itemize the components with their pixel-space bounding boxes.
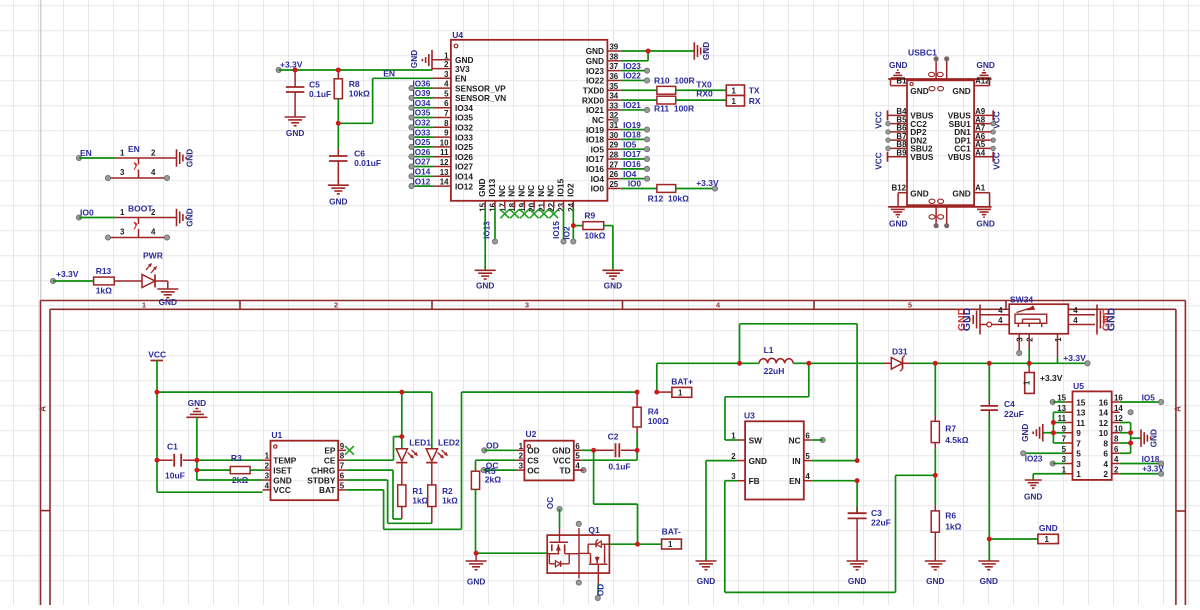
svg-text:R10 100R: R10 100R [654, 75, 695, 85]
svg-text:0.01uF: 0.01uF [354, 158, 381, 168]
wire +3.3V pin2 [1120, 473, 1161, 475]
wire OD [484, 449, 516, 451]
wire PWR to gnd [155, 280, 168, 282]
USBC1 VCC B9 [887, 152, 889, 162]
resistor R9 [583, 222, 604, 230]
svg-text:B9: B9 [896, 149, 907, 158]
svg-text:VCC: VCC [273, 485, 291, 495]
svg-text:2: 2 [1114, 465, 1119, 474]
svg-text:VBUS: VBUS [910, 152, 934, 162]
svg-text:3: 3 [1076, 459, 1081, 469]
USBC1 nc pads left [886, 121, 890, 125]
svg-text:EN: EN [383, 69, 395, 79]
svg-text:IO4: IO4 [623, 170, 637, 179]
ground sym C3 [847, 560, 868, 562]
svg-text:R7: R7 [945, 424, 956, 434]
junction R8/C6 [336, 121, 341, 126]
svg-text:U4: U4 [452, 30, 463, 40]
svg-text:VCC: VCC [874, 152, 884, 170]
wire U4 GND pins [621, 50, 648, 52]
U3 NC dot [820, 437, 825, 442]
wire BAT+ riser [656, 363, 658, 392]
svg-text:35: 35 [609, 82, 618, 91]
svg-text:GND: GND [976, 219, 994, 229]
svg-text:U2: U2 [526, 429, 537, 439]
svg-text:GND: GND [848, 576, 866, 586]
svg-text:IO23: IO23 [1025, 454, 1043, 463]
svg-text:OD: OD [527, 446, 539, 456]
svg-text:U3: U3 [744, 411, 755, 421]
svg-text:VCC: VCC [874, 111, 884, 129]
USBC1 pad ellipses bottom [929, 199, 935, 203]
wire R9 to gnd [604, 225, 613, 227]
svg-text:11: 11 [440, 148, 449, 157]
wire to GND connector [989, 538, 1038, 540]
node IO18 [1159, 461, 1164, 466]
node TD stub [581, 468, 586, 473]
svg-text:IO23: IO23 [586, 66, 604, 76]
svg-text:4: 4 [444, 80, 449, 89]
svg-text:IO21: IO21 [586, 105, 604, 115]
Q1 common dots [576, 521, 581, 526]
node +3.3V end [712, 186, 717, 191]
svg-text:4: 4 [998, 316, 1003, 325]
USBC1 nc pads right [991, 121, 995, 125]
svg-text:IO2: IO2 [565, 183, 575, 197]
svg-text:ISET: ISET [273, 465, 291, 475]
wire VCC down [156, 392, 158, 492]
wire left gnd [1043, 432, 1054, 434]
svg-text:2: 2 [1103, 469, 1108, 479]
svg-text:+3.3V: +3.3V [1063, 353, 1086, 363]
svg-text:22uH: 22uH [764, 366, 785, 376]
resistor R8 [337, 70, 339, 79]
svg-text:TXD0: TXD0 [583, 85, 605, 95]
svg-text:IO39: IO39 [413, 89, 431, 98]
resistor R4 [636, 392, 638, 407]
svg-text:IO19: IO19 [586, 125, 604, 135]
resistor R5 [471, 471, 479, 489]
svg-text:25: 25 [609, 180, 618, 189]
svg-text:IO23: IO23 [623, 62, 641, 71]
svg-text:GND: GND [467, 577, 485, 587]
wire IO0 to BOOT [79, 217, 116, 219]
USBC1 shield bottom line [888, 206, 991, 208]
resistor R1 [398, 485, 406, 507]
svg-text:+3.3V: +3.3V [56, 269, 79, 279]
svg-text:U5: U5 [1073, 381, 1084, 391]
svg-text:3V3: 3V3 [455, 64, 470, 74]
ground sym C6 [328, 184, 349, 186]
wire OC gate [559, 509, 561, 528]
svg-text:GND: GND [273, 475, 291, 485]
svg-text:GND: GND [409, 50, 419, 68]
svg-text:6: 6 [444, 99, 449, 108]
svg-text:EN: EN [789, 476, 801, 486]
svg-text:4: 4 [805, 472, 810, 481]
wire to R9 [573, 225, 583, 227]
svg-text:33: 33 [609, 101, 618, 110]
U5 right pins [1112, 401, 1120, 403]
svg-text:14: 14 [1099, 408, 1109, 418]
junction R5 gnd [474, 551, 479, 556]
svg-text:GND: GND [476, 281, 494, 291]
svg-text:10kΩ: 10kΩ [349, 89, 370, 99]
svg-text:R12 10kΩ: R12 10kΩ [648, 193, 689, 203]
svg-text:SW: SW [749, 435, 763, 445]
svg-text:+3.3V: +3.3V [280, 60, 303, 70]
svg-text:3: 3 [525, 301, 529, 310]
ground sym C5 [285, 116, 306, 118]
U1 right pins [338, 449, 346, 451]
svg-text:10uF: 10uF [165, 471, 185, 481]
wire U3 SW [725, 439, 737, 441]
wire IO13 pin16 [494, 208, 496, 242]
wire to R3 [197, 469, 230, 471]
U5 pin3 dot [1050, 461, 1055, 466]
svg-text:19: 19 [518, 202, 527, 211]
U5 left gnd bracket [1052, 412, 1054, 443]
svg-text:GND: GND [1039, 523, 1058, 533]
svg-text:6: 6 [1103, 449, 1108, 459]
svg-text:NC: NC [497, 185, 507, 197]
wire OC [484, 469, 517, 471]
svg-text:GND: GND [889, 60, 907, 70]
svg-text:IO26: IO26 [455, 152, 473, 162]
node IO5 [1159, 399, 1164, 404]
node +3.3V rail end [276, 67, 281, 72]
ground sym at EN [176, 149, 178, 167]
U3 right pins [804, 439, 812, 441]
svg-text:GND: GND [159, 297, 177, 307]
node OC stub [481, 468, 486, 473]
junction C2/R4 [635, 448, 640, 453]
svg-text:5: 5 [575, 452, 580, 461]
svg-text:1: 1 [732, 87, 737, 96]
svg-text:BAT+: BAT+ [671, 376, 693, 386]
pushbutton BOOT pin1 wire [116, 217, 176, 219]
USBC1 shield top line [888, 78, 991, 80]
svg-text:LED2: LED2 [438, 438, 460, 448]
svg-text:IO17: IO17 [586, 154, 604, 164]
svg-text:13: 13 [1076, 408, 1086, 418]
svg-text:RX: RX [749, 96, 761, 106]
svg-text:34: 34 [609, 92, 618, 101]
svg-text:LED1: LED1 [409, 438, 431, 448]
ground sym R6 [925, 560, 946, 562]
svg-text:GND: GND [1021, 424, 1030, 442]
svg-text:6: 6 [340, 472, 345, 481]
svg-text:4: 4 [151, 168, 156, 177]
Q1 left mosfet [549, 541, 568, 543]
wire IO15 pin23 [563, 208, 565, 242]
USBC1 VCC A9 [992, 110, 994, 120]
SW34 pin1 wire [1057, 334, 1059, 358]
svg-text:IO0: IO0 [628, 180, 642, 189]
junction C1 right [195, 458, 200, 463]
U5 pin15 dot [1050, 399, 1055, 404]
svg-text:1: 1 [120, 149, 125, 158]
svg-text:D31: D31 [892, 346, 908, 356]
U5 right gnd bracket [1130, 423, 1132, 454]
wire LED1 anode [401, 392, 403, 449]
svg-text:VCC: VCC [148, 350, 166, 360]
svg-text:4.5kΩ: 4.5kΩ [945, 435, 969, 445]
connector GND [1038, 534, 1059, 543]
wire BAT+ to L1 [657, 362, 740, 364]
svg-text:IO13: IO13 [482, 221, 491, 239]
U4 pin32 NC dot [613, 117, 618, 122]
junction IO2/R9 [571, 223, 576, 228]
svg-text:6: 6 [805, 432, 810, 441]
svg-text:NC: NC [516, 185, 526, 197]
svg-text:IO15: IO15 [556, 178, 566, 196]
svg-text:GND: GND [952, 189, 970, 199]
wire IO2 pin24 [572, 208, 574, 242]
LED2 arrows [438, 453, 444, 459]
capacitor C3 [856, 481, 858, 513]
svg-text:CE: CE [324, 456, 336, 466]
svg-text:8: 8 [340, 452, 345, 461]
LED LED2 [426, 449, 437, 461]
wire R11 to RX [676, 99, 727, 101]
junction BAT+ branch [654, 390, 659, 395]
svg-text:R4: R4 [648, 406, 659, 416]
wire +3.3V rail [279, 69, 432, 71]
svg-text:1: 1 [732, 97, 737, 106]
svg-text:26: 26 [609, 170, 618, 179]
svg-text:GND: GND [749, 456, 767, 466]
USBC1 top mount stubs [935, 59, 937, 79]
ground sym USBC1 top-left [897, 69, 899, 71]
node +3.3V wire end [50, 278, 55, 283]
U1 pin1 mark [274, 445, 277, 448]
svg-text:TEMP: TEMP [273, 456, 297, 466]
U2 right pins [574, 449, 582, 451]
SW34 pin3 dot [1017, 350, 1022, 355]
pushbutton BOOT pins 3-4 wire [108, 237, 167, 239]
SW34 left pin circle [987, 322, 992, 327]
svg-text:1kΩ: 1kΩ [945, 522, 961, 532]
svg-text:IO33: IO33 [455, 132, 473, 142]
wire U3 GND [706, 460, 737, 462]
svg-text:13: 13 [440, 168, 449, 177]
svg-text:3: 3 [519, 462, 524, 471]
svg-text:IO33: IO33 [413, 128, 431, 137]
svg-text:IO27: IO27 [455, 162, 473, 172]
node EN wire end [76, 155, 81, 160]
junction R7 rail [933, 361, 938, 366]
resistor R10 [657, 86, 676, 94]
resistor R7 [934, 363, 936, 415]
svg-text:5: 5 [444, 89, 449, 98]
U5 left bracket junctions [1051, 420, 1056, 425]
ground sym USBC1 bot-left [891, 208, 905, 210]
junction C4 rail [987, 361, 992, 366]
svg-text:GND: GND [552, 446, 570, 456]
svg-text:GND: GND [952, 86, 970, 96]
ground sym R9 [602, 269, 623, 271]
svg-text:C2: C2 [608, 432, 619, 442]
svg-text:GND: GND [586, 46, 604, 56]
svg-text:GND: GND [604, 281, 622, 291]
svg-text:USBC1: USBC1 [908, 48, 937, 58]
svg-text:100Ω: 100Ω [648, 416, 669, 426]
svg-text:GND: GND [185, 208, 195, 226]
wire TEMP [197, 459, 263, 461]
wire to +3.3V connector [1028, 363, 1030, 368]
USBC1 pin A12 [974, 85, 990, 87]
U4 left pin stubs [432, 59, 451, 61]
wire CS to R5 [476, 459, 517, 461]
svg-text:GND: GND [188, 398, 206, 408]
svg-text:A: A [39, 406, 48, 412]
svg-text:1: 1 [1054, 337, 1063, 342]
ground sym above R3 [195, 408, 198, 410]
USBC1 pad ellipses top [929, 72, 935, 76]
svg-text:R9: R9 [584, 211, 595, 221]
svg-text:6: 6 [575, 442, 580, 451]
svg-text:1: 1 [1023, 380, 1032, 385]
wire LED2 anode [431, 392, 433, 449]
svg-text:BAT-: BAT- [662, 527, 681, 537]
svg-text:NC: NC [789, 435, 801, 445]
svg-text:IO16: IO16 [623, 160, 641, 169]
svg-text:22: 22 [547, 202, 556, 211]
svg-text:C6: C6 [354, 149, 365, 159]
connector USBC1 body [907, 80, 974, 205]
svg-text:IO22: IO22 [623, 72, 641, 81]
wire U3 EN [812, 480, 857, 482]
IC U3 body [745, 421, 804, 499]
capacitor C2 [594, 449, 614, 451]
svg-text:C1: C1 [167, 442, 178, 452]
svg-text:27: 27 [609, 160, 618, 169]
svg-text:NC: NC [507, 185, 517, 197]
Q1 common drain line [578, 528, 580, 579]
svg-text:23: 23 [557, 202, 566, 211]
U1 left pins [263, 459, 271, 461]
wire gnd down [196, 460, 198, 480]
ground sym U4 bottom [475, 269, 496, 271]
svg-text:NC: NC [546, 185, 556, 197]
SW34 actuator arrow [1027, 306, 1035, 311]
svg-text:4: 4 [265, 481, 270, 490]
junction BAT- node [635, 542, 640, 547]
ground sym USBC1 top-right [983, 69, 985, 71]
wire Q1 to BAT- [609, 543, 661, 545]
svg-text:SENSOR_VP: SENSOR_VP [455, 83, 506, 93]
U4 bottom pin stubs [484, 201, 486, 208]
junction SW34 rail [1027, 361, 1032, 366]
wire U2 GND pin [582, 449, 594, 451]
junction C1 left [155, 458, 160, 463]
svg-text:17: 17 [498, 202, 507, 211]
svg-text:2: 2 [151, 149, 156, 158]
wire L1 to D31 [809, 362, 884, 364]
ground sym SW34 left [979, 305, 981, 335]
svg-text:C4: C4 [1004, 399, 1015, 409]
svg-text:B12: B12 [892, 184, 907, 193]
svg-text:SENSOR_VN: SENSOR_VN [455, 93, 506, 103]
svg-text:1kΩ: 1kΩ [412, 497, 428, 506]
wire R12 to +3.3V [676, 187, 715, 189]
svg-text:GND: GND [910, 86, 928, 96]
svg-text:IO12: IO12 [455, 181, 473, 191]
svg-text:36: 36 [609, 72, 618, 81]
svg-text:EN: EN [128, 144, 140, 154]
wire EN to S1 [79, 157, 116, 159]
svg-text:NC: NC [536, 185, 546, 197]
svg-text:C5: C5 [309, 80, 320, 90]
svg-text:0.1uF: 0.1uF [309, 89, 331, 99]
svg-text:1: 1 [120, 208, 125, 217]
wire to U1 GND pin [197, 479, 263, 481]
svg-text:10kΩ: 10kΩ [584, 230, 605, 240]
wire LED2 to R2 [431, 463, 433, 485]
svg-text:OD: OD [486, 440, 499, 450]
svg-text:0.1uF: 0.1uF [608, 461, 630, 471]
svg-text:GND: GND [910, 189, 928, 199]
svg-text:10: 10 [1099, 428, 1109, 438]
svg-text:20: 20 [528, 202, 537, 211]
ground sym U5 left [1042, 424, 1044, 442]
svg-text:24: 24 [567, 202, 576, 211]
svg-text:A: A [1173, 406, 1182, 412]
svg-text:IO12: IO12 [413, 177, 431, 186]
transistor Q1 body [547, 535, 609, 573]
svg-text:16: 16 [1099, 397, 1109, 407]
resistor R12 [657, 185, 676, 193]
svg-text:4: 4 [1073, 316, 1078, 325]
svg-text:GND: GND [1024, 491, 1042, 501]
ground sym U5 right [1140, 429, 1142, 447]
node OD stub [482, 448, 487, 453]
ground sym U4 right [693, 42, 695, 60]
svg-text:3: 3 [120, 228, 125, 237]
svg-text:16: 16 [488, 202, 497, 211]
svg-text:9: 9 [444, 129, 449, 138]
USBC1 VCC A4 [992, 152, 994, 162]
svg-text:IO0: IO0 [80, 208, 94, 218]
svg-text:1: 1 [519, 442, 524, 451]
svg-text:IO35: IO35 [413, 109, 431, 118]
svg-text:+3.3V: +3.3V [696, 178, 719, 188]
ground sym U5 pin1 [1025, 479, 1042, 481]
USBC1 bottom mount stubs [935, 207, 937, 226]
svg-text:VCC: VCC [553, 456, 571, 466]
pushbutton BOOT contacts [138, 218, 140, 225]
svg-text:IO2: IO2 [562, 226, 571, 240]
svg-text:GND: GND [477, 178, 487, 196]
svg-text:5: 5 [805, 452, 810, 461]
junction at C5 [293, 68, 298, 73]
svg-text:4: 4 [998, 306, 1003, 315]
ground sym U4 pin1-2 [431, 50, 433, 71]
wire IO23 [1023, 452, 1064, 454]
svg-text:IO4: IO4 [591, 174, 605, 184]
wire U3 IN [812, 460, 857, 462]
wire BAT rail left [157, 391, 432, 393]
wire GND pin15 [484, 208, 486, 270]
svg-text:RXD0: RXD0 [582, 95, 605, 105]
svg-text:GND: GND [701, 42, 711, 60]
ground sym USBC1 bot-right [977, 208, 991, 210]
svg-text:12: 12 [1099, 418, 1109, 428]
svg-text:IO17: IO17 [623, 150, 641, 159]
svg-text:TX: TX [749, 86, 760, 96]
svg-text:+3.3V: +3.3V [1040, 373, 1063, 383]
